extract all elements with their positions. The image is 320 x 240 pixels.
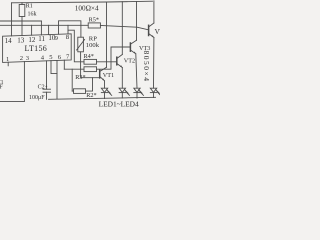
svg-text:VT1: VT1: [103, 72, 114, 79]
wire bus B to R5 left: [0, 24, 88, 26]
wire pin6 to ground rail: [56, 60, 58, 99]
LED LED4: [150, 88, 156, 92]
wire VT3 emitter to LED3: [136, 54, 137, 88]
wire R5 to VT4 base: [100, 26, 148, 30]
transistor Q2 VT2: [116, 57, 118, 65]
svg-text:6: 6: [58, 54, 62, 61]
svg-text:16k: 16k: [28, 11, 37, 17]
op-amp U1 LT156 box: [3, 34, 72, 63]
wire pin2 stub to bottom left: [0, 62, 24, 102]
wire R2 feed: [71, 69, 73, 91]
svg-text:100k: 100k: [86, 42, 100, 49]
svg-text:8050×4: 8050×4: [142, 51, 151, 83]
wire VT2 emitter to LED2: [121, 68, 123, 89]
wire VT4 collector to rail: [153, 1, 155, 23]
svg-text:5: 5: [49, 54, 53, 61]
svg-text:2: 2: [20, 55, 23, 62]
wire R4 to VT2 base: [97, 61, 117, 63]
transistor Q3 VT3: [129, 43, 131, 51]
wire bus A: [0, 20, 41, 22]
wire pin5 stub: [51, 61, 57, 74]
wire pin10 stub: [48, 25, 50, 34]
svg-text:8: 8: [66, 34, 70, 41]
wire bottom ground rail: [49, 97, 156, 99]
svg-text:R1: R1: [26, 4, 33, 10]
resistor R4: [84, 59, 97, 64]
resistor R1: [21, 3, 23, 5]
wire RP bottom to VT1 base node: [81, 52, 93, 78]
svg-text:14: 14: [5, 37, 13, 45]
resistor R3: [84, 67, 97, 72]
svg-text:R2*: R2*: [86, 92, 96, 99]
LED LED3: [134, 88, 140, 92]
svg-text:+: +: [45, 85, 48, 90]
svg-text:LT156: LT156: [25, 44, 48, 53]
wire top power rail: [12, 1, 153, 3]
svg-text:1: 1: [6, 56, 9, 63]
svg-text:100Ω×4: 100Ω×4: [75, 4, 99, 12]
LED LED2: [119, 88, 125, 92]
wire pin8 corner to R4 feed: [68, 30, 84, 62]
svg-text:11: 11: [38, 35, 45, 43]
wire pin7 to R3: [64, 68, 84, 70]
svg-text:9: 9: [55, 35, 59, 42]
wire VT1 collector to rail: [106, 2, 108, 67]
svg-text:LED1~LED4: LED1~LED4: [99, 100, 139, 109]
transistor Q1 VT1: [99, 70, 101, 78]
svg-text:R5*: R5*: [89, 16, 99, 23]
svg-text:100μF: 100μF: [29, 95, 45, 101]
wire pin12 stub: [31, 25, 33, 35]
svg-text:3: 3: [26, 55, 30, 62]
wire VT4 emitter to LED4: [153, 38, 155, 89]
svg-text:VT2: VT2: [124, 57, 135, 64]
LED LED1: [101, 88, 107, 92]
resistor R2: [74, 89, 86, 94]
transistor Q4 VT4: [148, 25, 150, 35]
svg-text:R4*: R4*: [84, 53, 94, 60]
svg-text:C2: C2: [38, 85, 45, 91]
wire VT2 collector to rail: [121, 2, 123, 55]
wire VT3 collector to rail: [136, 1, 138, 40]
svg-text:R3*: R3*: [75, 74, 85, 81]
wire pin9 jog to RP top: [59, 21, 81, 37]
wire pin7 stub down: [63, 60, 65, 69]
resistor R5: [88, 23, 100, 28]
svg-text:12: 12: [28, 36, 36, 44]
svg-text:VT4: VT4: [155, 28, 160, 36]
wire pin8 stub: [67, 25, 69, 34]
svg-text:4: 4: [41, 54, 45, 61]
wire pin14 to rail: [11, 3, 13, 36]
wire VT1 emitter to LED1: [104, 81, 106, 88]
capacitor C2: [46, 61, 48, 89]
wire R2 to VT1 base: [86, 78, 100, 91]
wire R3 to VT3 base: [97, 47, 131, 69]
wire pin11 stub: [40, 21, 42, 35]
potentiometer RP: [78, 37, 84, 52]
wire pin1 stub: [7, 62, 9, 66]
